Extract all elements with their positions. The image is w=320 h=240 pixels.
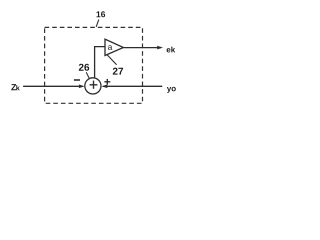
node yo label <box>167 87 176 93</box>
leader line for label 27 <box>107 54 117 65</box>
summing junction 26 (circle) <box>85 78 101 94</box>
amplifier 27 (triangle) <box>105 39 123 55</box>
arrowhead ek output <box>157 46 163 50</box>
minus sign on Zk input <box>74 79 80 81</box>
arrowhead into summing junction from yo <box>102 85 108 89</box>
plus sign on yo input <box>104 81 110 83</box>
leader line for label 16 <box>96 20 99 27</box>
label 26 <box>79 64 89 71</box>
wire from summing junction up into amplifier input <box>95 47 105 78</box>
label 27 <box>113 68 123 75</box>
node ek label <box>167 47 176 53</box>
wire amplifier output to ek <box>123 47 158 49</box>
wire Zk input <box>23 85 79 87</box>
plus sign inside summing junction <box>90 84 98 86</box>
wire yo feedback input <box>103 85 162 87</box>
leader line for label 26 <box>86 72 89 78</box>
gain value a inside amplifier <box>108 45 112 50</box>
node Zk label <box>11 84 19 90</box>
label 16 <box>97 11 106 17</box>
dashed enclosure box 16 <box>45 27 143 103</box>
arrowhead into summing junction from Zk <box>79 85 85 89</box>
